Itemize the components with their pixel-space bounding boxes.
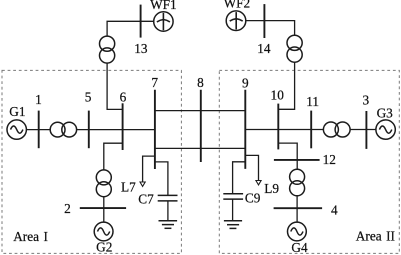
bus 2 [80, 207, 126, 209]
wire WF1 to bus 13 elbow [107, 21, 154, 36]
bus 14 [263, 4, 265, 38]
sine G1 [11, 126, 23, 133]
wire bus 6 to T26 [104, 143, 123, 170]
bus 9 [244, 90, 246, 169]
svg-text:1: 1 [35, 92, 42, 107]
svg-text:10: 10 [271, 87, 285, 102]
sine G3 [379, 126, 391, 133]
bus 3 [365, 111, 367, 149]
turbine icon WF2 [230, 12, 243, 29]
transformer T311 [323, 122, 338, 137]
svg-text:C7: C7 [138, 191, 154, 206]
bus 6 [122, 103, 124, 150]
Area I dashed box [2, 70, 181, 253]
svg-text:Area II: Area II [356, 229, 395, 244]
svg-text:L9: L9 [264, 181, 279, 196]
sine G4 [291, 228, 303, 235]
transformer T14 (WF2) [287, 35, 302, 50]
wire T14 to bus 10 [278, 62, 294, 109]
svg-text:WF2: WF2 [224, 0, 251, 10]
svg-text:5: 5 [85, 90, 92, 105]
bus 10 [277, 104, 279, 150]
svg-text:4: 4 [331, 202, 338, 217]
bus 1 [38, 111, 40, 149]
transformer T26 (G2) [96, 170, 111, 185]
svg-text:13: 13 [134, 41, 148, 56]
wire C7 to ground [167, 201, 169, 220]
bus 11 [310, 111, 312, 149]
wire WF2 to bus 14 elbow [246, 21, 295, 36]
load L7 arrow [140, 182, 145, 186]
wire main Area II (transformer to G3) [350, 129, 376, 131]
load L9 arrow [256, 181, 261, 185]
generator G2 [94, 222, 113, 241]
ground C7 [159, 221, 178, 229]
wire main Area II (bus 9 to transformer) [245, 129, 323, 131]
wire main Area I (transformer to bus 7) [77, 129, 155, 131]
turbine icon WF1 [157, 13, 170, 30]
svg-text:G3: G3 [377, 105, 394, 120]
generator G3 [376, 120, 395, 139]
bus 13 [140, 5, 142, 38]
capacitor C9 wire [233, 162, 246, 193]
transformer T13 (WF1) [100, 36, 115, 51]
bus 8 [200, 90, 202, 162]
bus 5 [88, 111, 90, 149]
svg-text:C9: C9 [245, 191, 261, 206]
svg-text:11: 11 [306, 94, 319, 109]
wire bus 12 to T412 [296, 160, 298, 169]
capacitor C9 plates [223, 193, 243, 195]
svg-text:12: 12 [323, 152, 336, 167]
capacitor C7 wire [155, 162, 168, 195]
wind farm WF2 [226, 11, 246, 31]
generator G1 [7, 120, 26, 139]
svg-text:WF1: WF1 [150, 0, 177, 12]
svg-text:14: 14 [257, 41, 271, 56]
wind farm WF1 [154, 12, 173, 31]
svg-text:G4: G4 [291, 240, 308, 255]
svg-text:Area I: Area I [13, 229, 48, 244]
svg-text:G2: G2 [96, 240, 112, 255]
transformer T15 [50, 122, 65, 137]
wire main Area I (G1 to transformer) [26, 129, 50, 131]
bus 12 [274, 159, 320, 161]
tie line upper [155, 110, 245, 112]
wire T26 to G2 [103, 197, 105, 223]
capacitor C7 plates [158, 194, 178, 196]
svg-text:G1: G1 [9, 104, 25, 119]
svg-text:6: 6 [120, 90, 127, 105]
svg-text:9: 9 [242, 75, 249, 90]
transformer T412 (G4) [290, 169, 305, 184]
bus 7 [154, 90, 156, 169]
wire T13 to bus 6 [107, 63, 123, 109]
svg-text:2: 2 [64, 201, 71, 216]
wire bus 10 to bus 12 [278, 143, 297, 160]
load L9 wire [245, 155, 258, 180]
Area II dashed box [219, 70, 399, 253]
bus 4 [274, 207, 323, 209]
svg-text:L7: L7 [121, 179, 136, 194]
generator G4 [288, 222, 307, 241]
tie line lower [155, 147, 245, 149]
svg-text:7: 7 [151, 75, 158, 90]
wire T412 to G4 [296, 196, 298, 222]
svg-text:3: 3 [362, 92, 369, 107]
svg-text:8: 8 [197, 75, 204, 90]
wire C9 to ground [232, 199, 234, 220]
sine G2 [98, 228, 110, 235]
load L7 wire [143, 156, 155, 182]
ground C9 [224, 221, 242, 229]
